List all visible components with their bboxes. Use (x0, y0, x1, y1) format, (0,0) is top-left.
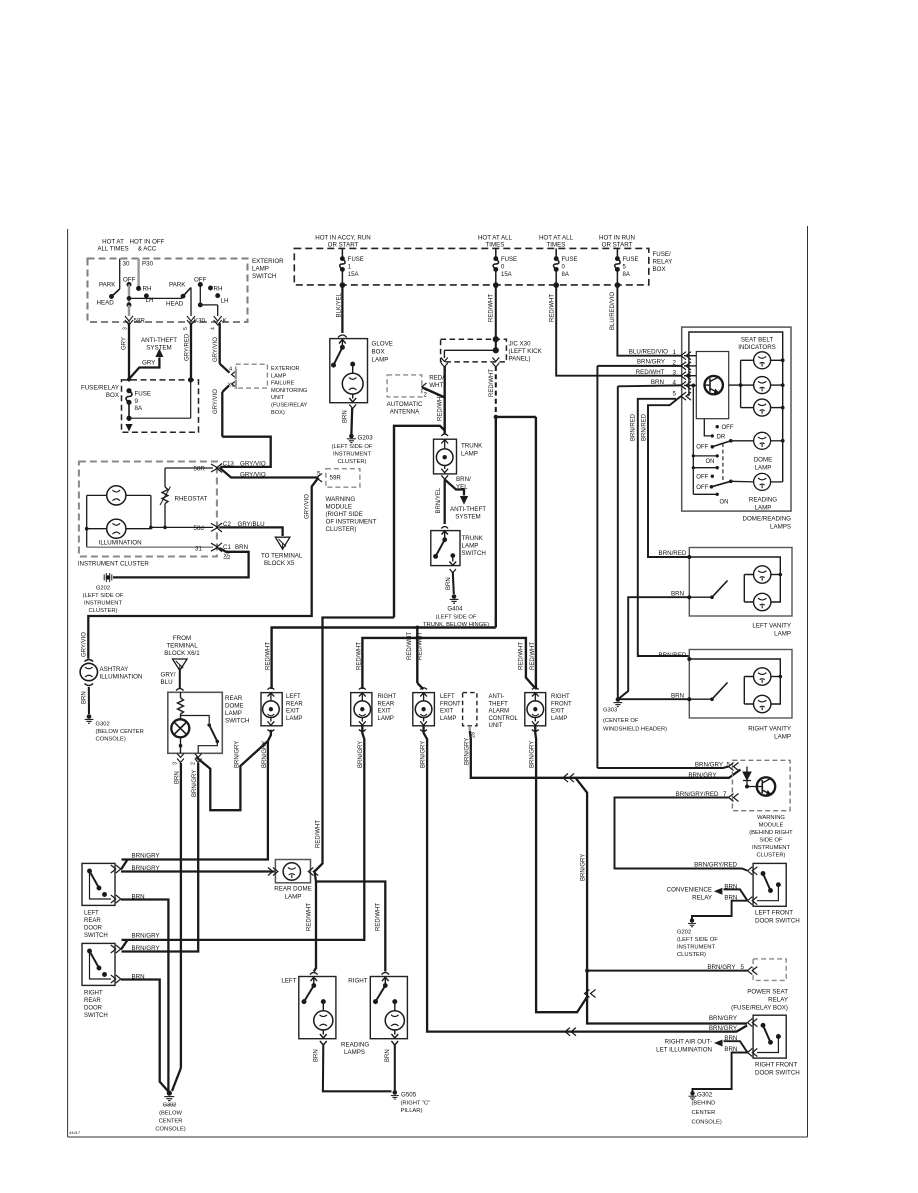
svg-text:ANTENNA: ANTENNA (390, 409, 420, 416)
svg-text:OF INSTRUMENT: OF INSTRUMENT (326, 519, 377, 526)
svg-text:BRN/GRY: BRN/GRY (707, 964, 735, 971)
svg-text:31: 31 (195, 546, 202, 553)
svg-text:REAR: REAR (84, 998, 101, 1004)
svg-text:OR START: OR START (602, 241, 633, 248)
svg-text:BRN: BRN (132, 973, 145, 980)
svg-text:MODULE: MODULE (326, 504, 352, 511)
svg-text:4: 4 (229, 367, 232, 373)
svg-text:INSTRUMENT: INSTRUMENT (333, 452, 371, 458)
svg-text:LAMP: LAMP (462, 543, 479, 550)
svg-text:RELAY: RELAY (653, 259, 673, 266)
svg-text:GRY/VIO: GRY/VIO (305, 494, 311, 519)
svg-text:(BELOW: (BELOW (159, 1111, 182, 1117)
svg-text:FRONT: FRONT (440, 701, 461, 707)
svg-text:LH: LH (221, 298, 229, 305)
svg-text:OR START: OR START (328, 241, 359, 248)
svg-text:BRN/GRY: BRN/GRY (358, 741, 364, 768)
svg-text:2: 2 (424, 391, 428, 398)
svg-text:BRN: BRN (446, 577, 452, 590)
svg-text:BRN/GRY: BRN/GRY (688, 772, 716, 779)
svg-text:CONSOLE): CONSOLE) (692, 1120, 722, 1126)
svg-text:BRN: BRN (235, 544, 248, 551)
svg-text:(LEFT SIDE OF: (LEFT SIDE OF (83, 593, 124, 599)
svg-text:HOT IN ACCY, RUN: HOT IN ACCY, RUN (315, 234, 370, 241)
svg-text:BOX: BOX (372, 349, 385, 356)
svg-text:GLOVE: GLOVE (372, 341, 393, 348)
svg-text:BRN: BRN (82, 691, 88, 704)
svg-text:(FUSE/RELAY: (FUSE/RELAY (271, 403, 308, 409)
svg-text:LAMP: LAMP (551, 716, 567, 722)
svg-text:GRY: GRY (122, 337, 128, 350)
svg-text:CENTER: CENTER (692, 1110, 716, 1116)
svg-text:BRN: BRN (385, 1049, 391, 1062)
svg-text:LEFT VANITY: LEFT VANITY (752, 623, 791, 630)
svg-text:REAR: REAR (378, 701, 395, 707)
svg-text:FROM: FROM (173, 635, 191, 642)
svg-text:BRN/: BRN/ (456, 476, 471, 483)
svg-text:GRY/: GRY/ (161, 672, 176, 679)
svg-text:BRN/RED: BRN/RED (659, 550, 687, 557)
svg-text:RH: RH (143, 286, 152, 293)
svg-text:DOOR: DOOR (84, 926, 103, 932)
svg-text:BRN/GRY/RED: BRN/GRY/RED (694, 862, 737, 869)
svg-text:GRY: GRY (142, 360, 155, 367)
svg-text:0: 0 (562, 265, 566, 271)
svg-text:TIMES: TIMES (547, 241, 566, 248)
svg-text:RED/WHT: RED/WHT (307, 903, 313, 931)
svg-text:LAMP: LAMP (286, 716, 302, 722)
svg-text:BRN/GRY: BRN/GRY (132, 933, 160, 940)
svg-text:ANTI-: ANTI- (489, 694, 505, 700)
svg-text:FUSE/RELAY: FUSE/RELAY (81, 385, 119, 392)
svg-text:CONSOLE): CONSOLE) (155, 1127, 185, 1133)
svg-text:X5: X5 (224, 554, 231, 560)
svg-text:BRN: BRN (343, 410, 349, 423)
svg-text:EXIT: EXIT (378, 709, 392, 715)
svg-text:RIGHT: RIGHT (84, 991, 103, 997)
svg-text:15A: 15A (348, 272, 359, 278)
svg-text:(LEFT SIDE OF: (LEFT SIDE OF (332, 444, 373, 450)
svg-text:LET ILLUMINATION: LET ILLUMINATION (656, 1047, 712, 1054)
svg-text:SEAT BELT: SEAT BELT (741, 336, 774, 343)
svg-text:30: 30 (123, 261, 130, 268)
svg-text:BRN/GRY: BRN/GRY (695, 762, 723, 769)
svg-text:EXIT: EXIT (286, 709, 300, 715)
svg-text:MODULE: MODULE (759, 823, 784, 829)
svg-text:LEFT: LEFT (440, 694, 455, 700)
svg-text:BRN/GRY: BRN/GRY (530, 741, 536, 768)
svg-text:4: 4 (211, 327, 217, 330)
svg-text:ILLUMINATION: ILLUMINATION (99, 539, 142, 546)
svg-text:BRN/GRY: BRN/GRY (709, 1015, 737, 1022)
svg-text:TRUNK: TRUNK (461, 443, 483, 450)
svg-text:INSTRUMENT CLUSTER: INSTRUMENT CLUSTER (78, 561, 150, 568)
svg-text:58R: 58R (134, 318, 146, 325)
svg-text:J/C X30: J/C X30 (509, 341, 532, 348)
svg-text:SYSTEM: SYSTEM (146, 345, 171, 352)
svg-text:LAMP: LAMP (225, 710, 242, 717)
svg-text:44417: 44417 (69, 1130, 81, 1135)
svg-text:& ACC: & ACC (138, 246, 157, 253)
svg-text:G203: G203 (358, 435, 374, 442)
svg-text:BRN/GRY: BRN/GRY (581, 854, 587, 881)
svg-text:UNIT: UNIT (271, 395, 285, 401)
svg-text:ANTI-THEFT: ANTI-THEFT (450, 506, 486, 513)
svg-text:OFF: OFF (722, 425, 734, 431)
svg-text:BRN/RED: BRN/RED (631, 413, 637, 441)
svg-text:HOT IN RUN: HOT IN RUN (599, 234, 635, 241)
svg-text:5: 5 (317, 471, 321, 478)
svg-text:BRN/GRY: BRN/GRY (421, 741, 427, 768)
svg-text:EXTERIOR: EXTERIOR (252, 258, 284, 265)
svg-text:RH: RH (214, 286, 223, 293)
svg-text:BLU/RED/VIO: BLU/RED/VIO (629, 348, 668, 355)
svg-text:FUSE/: FUSE/ (653, 251, 672, 258)
svg-text:EXIT: EXIT (440, 709, 454, 715)
svg-text:CLUSTER): CLUSTER) (326, 526, 357, 533)
svg-text:2: 2 (190, 762, 196, 765)
svg-text:LAMP: LAMP (285, 894, 302, 901)
svg-text:(RIGHT "C": (RIGHT "C" (401, 1101, 431, 1107)
svg-text:TO TERMINAL: TO TERMINAL (261, 553, 303, 560)
svg-text:READING: READING (341, 1042, 369, 1049)
svg-text:BOX: BOX (106, 392, 119, 399)
svg-text:INDICATORS: INDICATORS (738, 344, 776, 351)
svg-text:9: 9 (135, 398, 139, 405)
svg-text:OFF: OFF (696, 445, 708, 451)
svg-text:BLOCK X5: BLOCK X5 (264, 560, 295, 567)
svg-text:LAMP: LAMP (271, 373, 287, 379)
svg-text:RED/: RED/ (429, 375, 444, 382)
svg-text:RED/WHT: RED/WHT (407, 632, 413, 660)
svg-text:REAR DOME: REAR DOME (274, 886, 311, 893)
svg-text:BRN/RED: BRN/RED (641, 413, 647, 441)
svg-text:ALL TIMES: ALL TIMES (97, 246, 128, 253)
svg-text:DOOR SWITCH: DOOR SWITCH (755, 918, 800, 925)
svg-text:5: 5 (673, 390, 677, 397)
svg-text:RED/WHT: RED/WHT (489, 369, 495, 397)
svg-text:BRN: BRN (132, 893, 145, 900)
svg-text:CLUSTER): CLUSTER) (338, 459, 367, 465)
svg-text:FUSE: FUSE (501, 257, 517, 263)
svg-text:RED/WHT: RED/WHT (437, 393, 443, 421)
svg-text:5: 5 (727, 762, 731, 769)
svg-text:GRY/VIO: GRY/VIO (82, 632, 88, 657)
svg-text:G202: G202 (96, 586, 110, 592)
svg-text:3: 3 (173, 762, 179, 765)
svg-text:DR: DR (717, 434, 726, 440)
svg-text:RED/WHT: RED/WHT (549, 294, 555, 322)
svg-text:WHT: WHT (429, 382, 443, 389)
svg-text:DOME/READING: DOME/READING (743, 516, 792, 523)
svg-text:HEAD: HEAD (166, 301, 184, 308)
svg-text:LAMP: LAMP (774, 734, 791, 741)
svg-text:LAMP: LAMP (755, 465, 772, 472)
svg-text:1: 1 (348, 265, 352, 271)
svg-text:GRY/VIO: GRY/VIO (213, 337, 219, 362)
svg-text:FAILURE: FAILURE (271, 381, 295, 387)
svg-text:LAMPS: LAMPS (770, 524, 791, 531)
svg-text:DOOR SWITCH: DOOR SWITCH (755, 1070, 800, 1077)
svg-text:UNIT: UNIT (489, 723, 503, 729)
svg-text:BRN/GRY: BRN/GRY (132, 852, 160, 859)
svg-text:G302: G302 (163, 1102, 176, 1108)
svg-text:OFF: OFF (696, 485, 708, 491)
svg-text:INSTRUMENT: INSTRUMENT (84, 601, 122, 607)
svg-text:RED/WHT: RED/WHT (356, 642, 362, 670)
svg-text:GRY/VIO: GRY/VIO (240, 461, 266, 468)
svg-text:DOOR: DOOR (84, 1006, 103, 1012)
svg-text:(BELOW CENTER: (BELOW CENTER (96, 729, 144, 735)
svg-text:RED/WHT: RED/WHT (530, 642, 536, 670)
svg-text:BRN/GRY: BRN/GRY (132, 865, 160, 872)
svg-text:TRUNK: TRUNK (462, 535, 484, 542)
svg-text:HOT AT ALL: HOT AT ALL (539, 234, 574, 241)
svg-text:CLUSTER): CLUSTER) (757, 853, 786, 859)
svg-text:HOT IN OFF: HOT IN OFF (130, 239, 165, 246)
svg-text:G505: G505 (401, 1092, 417, 1099)
svg-text:ILLUMINATION: ILLUMINATION (100, 674, 143, 681)
svg-text:DOME: DOME (754, 457, 773, 464)
svg-text:PILLAR): PILLAR) (401, 1108, 423, 1114)
svg-text:SWITCH: SWITCH (225, 718, 249, 725)
svg-text:G303: G303 (603, 708, 617, 714)
svg-text:8A: 8A (562, 272, 569, 278)
svg-text:5: 5 (741, 964, 745, 971)
svg-text:SYSTEM: SYSTEM (455, 514, 480, 521)
svg-text:LEFT: LEFT (286, 694, 301, 700)
svg-text:SWITCH: SWITCH (252, 273, 276, 280)
svg-text:C13: C13 (223, 461, 235, 468)
svg-text:G202: G202 (677, 930, 691, 936)
svg-text:59R: 59R (330, 475, 342, 482)
svg-text:RED/WHT: RED/WHT (266, 642, 272, 670)
svg-text:BRN/YEL: BRN/YEL (436, 487, 442, 513)
svg-text:(LEFT SIDE OF: (LEFT SIDE OF (436, 615, 477, 621)
svg-text:RIGHT FRONT: RIGHT FRONT (755, 1062, 797, 1069)
svg-text:BLOCK X6/1: BLOCK X6/1 (164, 650, 200, 657)
svg-text:LAMP: LAMP (378, 716, 394, 722)
svg-text:RIGHT AIR OUT-: RIGHT AIR OUT- (665, 1039, 712, 1046)
svg-text:ON: ON (706, 459, 715, 465)
svg-text:BOX: BOX (653, 266, 666, 273)
svg-text:LAMP: LAMP (372, 357, 389, 364)
svg-text:HOT AT ALL: HOT AT ALL (478, 234, 513, 241)
svg-text:DOME: DOME (225, 703, 244, 710)
svg-text:RED/WHT: RED/WHT (418, 632, 424, 660)
svg-text:LEFT FRONT: LEFT FRONT (755, 910, 793, 917)
svg-text:MONITORING: MONITORING (271, 388, 307, 394)
svg-text:ON: ON (720, 500, 729, 506)
svg-text:5: 5 (183, 327, 189, 330)
svg-text:TERMINAL: TERMINAL (166, 643, 198, 650)
svg-text:SWITCH: SWITCH (84, 933, 108, 939)
svg-text:READING: READING (749, 497, 777, 504)
svg-text:FUSE: FUSE (135, 391, 152, 398)
svg-text:POWER SEAT: POWER SEAT (747, 989, 788, 996)
svg-text:(CENTER OF: (CENTER OF (603, 718, 639, 724)
svg-text:TIMES: TIMES (486, 241, 505, 248)
svg-text:LAMP: LAMP (461, 451, 478, 458)
svg-text:ASHTRAY: ASHTRAY (100, 666, 129, 673)
svg-text:GRY/RED: GRY/RED (185, 333, 191, 361)
svg-text:FRONT: FRONT (551, 701, 572, 707)
svg-text:ALARM: ALARM (489, 709, 510, 715)
svg-text:EXIT: EXIT (551, 709, 565, 715)
svg-text:(RIGHT SIDE: (RIGHT SIDE (326, 511, 363, 518)
svg-text:5: 5 (623, 265, 627, 271)
svg-text:58R: 58R (194, 466, 206, 473)
svg-text:LAMP: LAMP (440, 716, 456, 722)
svg-text:HEAD: HEAD (97, 300, 115, 307)
svg-text:K30: K30 (194, 318, 206, 325)
svg-text:REAR: REAR (286, 701, 303, 707)
svg-text:GRY/VIO: GRY/VIO (213, 389, 219, 414)
svg-text:WINDSHIELD HEADER): WINDSHIELD HEADER) (603, 727, 667, 733)
svg-text:G404: G404 (447, 606, 463, 613)
svg-text:RED/WHT: RED/WHT (519, 642, 525, 670)
svg-text:LAMP: LAMP (774, 631, 791, 638)
svg-text:HOT AT: HOT AT (102, 239, 124, 246)
svg-text:BRN: BRN (314, 1049, 320, 1062)
svg-text:8A: 8A (623, 272, 630, 278)
svg-text:8A: 8A (135, 405, 143, 412)
svg-text:OFF: OFF (696, 475, 708, 481)
svg-text:WARNING: WARNING (757, 815, 785, 821)
svg-text:BOX): BOX) (271, 410, 285, 416)
svg-text:RELAY: RELAY (768, 997, 788, 1004)
svg-text:(BEHIND: (BEHIND (692, 1101, 716, 1107)
svg-text:EXTERIOR: EXTERIOR (271, 366, 300, 372)
svg-text:RIGHT VANITY: RIGHT VANITY (748, 726, 791, 733)
svg-text:CLUSTER): CLUSTER) (677, 952, 706, 958)
svg-text:(FUSE/RELAY BOX): (FUSE/RELAY BOX) (731, 1005, 788, 1012)
svg-text:PANEL): PANEL) (509, 356, 531, 363)
svg-text:REAR: REAR (84, 918, 101, 924)
svg-text:RED/WHT: RED/WHT (489, 294, 495, 322)
svg-text:15A: 15A (501, 272, 512, 278)
svg-text:P30: P30 (142, 261, 154, 268)
svg-text:LAMP: LAMP (755, 505, 772, 512)
svg-text:INSTRUMENT: INSTRUMENT (677, 945, 715, 951)
svg-text:BLU: BLU (161, 679, 173, 686)
svg-text:AUTOMATIC: AUTOMATIC (387, 401, 423, 408)
svg-text:BLU/RED/VIO: BLU/RED/VIO (610, 292, 616, 330)
svg-text:FUSE: FUSE (623, 257, 639, 263)
svg-text:CLUSTER): CLUSTER) (89, 608, 118, 614)
svg-text:58d: 58d (194, 525, 205, 532)
svg-text:ANTI-THEFT: ANTI-THEFT (141, 337, 177, 344)
svg-text:SWITCH: SWITCH (462, 550, 486, 557)
svg-text:RED/WHT: RED/WHT (316, 820, 322, 848)
svg-text:G302: G302 (96, 722, 110, 728)
svg-text:INSTRUMENT: INSTRUMENT (752, 845, 790, 851)
svg-text:BRN: BRN (174, 771, 180, 784)
svg-text:REAR: REAR (225, 695, 243, 702)
svg-text:RIGHT: RIGHT (378, 694, 397, 700)
svg-text:(LEFT KICK: (LEFT KICK (509, 348, 543, 355)
svg-text:G302: G302 (697, 1092, 713, 1099)
svg-text:SIDE OF: SIDE OF (759, 838, 783, 844)
svg-text:(BEHIND RIGHT: (BEHIND RIGHT (749, 830, 793, 836)
svg-text:0: 0 (501, 265, 505, 271)
svg-text:3: 3 (123, 327, 129, 330)
svg-text:LAMP: LAMP (252, 266, 269, 273)
svg-text:RIGHT: RIGHT (348, 978, 367, 985)
svg-text:BRN/RED: BRN/RED (659, 652, 687, 659)
svg-text:BRN/GRY: BRN/GRY (235, 741, 241, 768)
svg-text:BRN/GRY: BRN/GRY (464, 738, 470, 765)
svg-text:LEFT: LEFT (281, 978, 296, 985)
svg-text:LEFT: LEFT (84, 911, 99, 917)
svg-text:PARK: PARK (99, 282, 116, 289)
svg-text:CONTROL: CONTROL (489, 716, 519, 722)
svg-text:RHEOSTAT: RHEOSTAT (175, 495, 208, 502)
svg-text:SWITCH: SWITCH (84, 1013, 108, 1019)
svg-text:CENTER: CENTER (159, 1119, 183, 1125)
svg-text:PARK: PARK (169, 282, 186, 289)
svg-text:FUSE: FUSE (562, 257, 578, 263)
svg-text:CONSOLE): CONSOLE) (96, 737, 126, 743)
svg-text:BRN/GRY: BRN/GRY (637, 359, 665, 366)
svg-text:RIGHT: RIGHT (551, 694, 570, 700)
svg-text:RELAY: RELAY (692, 895, 712, 902)
svg-text:FUSE: FUSE (348, 257, 364, 263)
svg-text:CONVENIENCE: CONVENIENCE (667, 887, 712, 894)
svg-text:LAMPS: LAMPS (344, 1049, 365, 1056)
svg-text:BRN/GRY: BRN/GRY (709, 1025, 737, 1032)
svg-text:THEFT: THEFT (489, 701, 509, 707)
svg-text:WARNING: WARNING (326, 496, 356, 503)
svg-text:BRN/GRY: BRN/GRY (132, 945, 160, 952)
svg-text:(LEFT SIDE OF: (LEFT SIDE OF (677, 937, 718, 943)
svg-text:RED/WHT: RED/WHT (376, 903, 382, 931)
